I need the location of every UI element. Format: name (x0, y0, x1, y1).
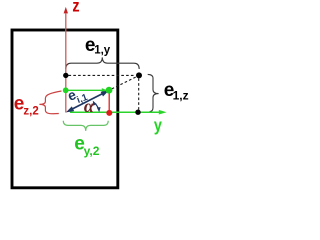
svg-text:z: z (72, 0, 79, 16)
brace e1y top (66, 57, 139, 69)
node green dot on z axis (63, 87, 69, 93)
z axis line (65, 14, 67, 113)
svg-text:α: α (84, 96, 95, 116)
svg-text:y,2: y,2 (84, 144, 100, 158)
label ei1 (65, 82, 89, 108)
brace ey2 bottom green (63, 121, 108, 131)
node red dot on y axis (106, 110, 112, 116)
svg-text:1,y: 1,y (94, 44, 111, 56)
brace e1z right (148, 74, 159, 111)
svg-text:1,z: 1,z (173, 89, 189, 103)
y axis line (70, 111, 160, 113)
brace ez2 left red (39, 91, 61, 114)
node black dot on z axis (63, 73, 68, 78)
node black dot on y axis (135, 110, 140, 115)
green component segment (66, 89, 104, 91)
rectangle body outline (12, 30, 118, 188)
wire dashed horizontal projection (69, 74, 136, 76)
vector ei1 navy double arrow (71, 93, 105, 110)
z axis arrowhead (64, 7, 68, 13)
wire dashed diagonal extension (112, 77, 137, 89)
green segment arrowhead (102, 88, 107, 92)
y axis arrowhead (159, 110, 167, 115)
red component segment (108, 90, 110, 111)
node green dot unit tip (106, 87, 113, 94)
angle alpha arc (96, 104, 99, 109)
wire dashed vertical projection (138, 78, 140, 110)
node black dot vector tip (136, 72, 142, 78)
svg-text:y: y (154, 115, 162, 135)
svg-text:z,2: z,2 (23, 105, 38, 117)
